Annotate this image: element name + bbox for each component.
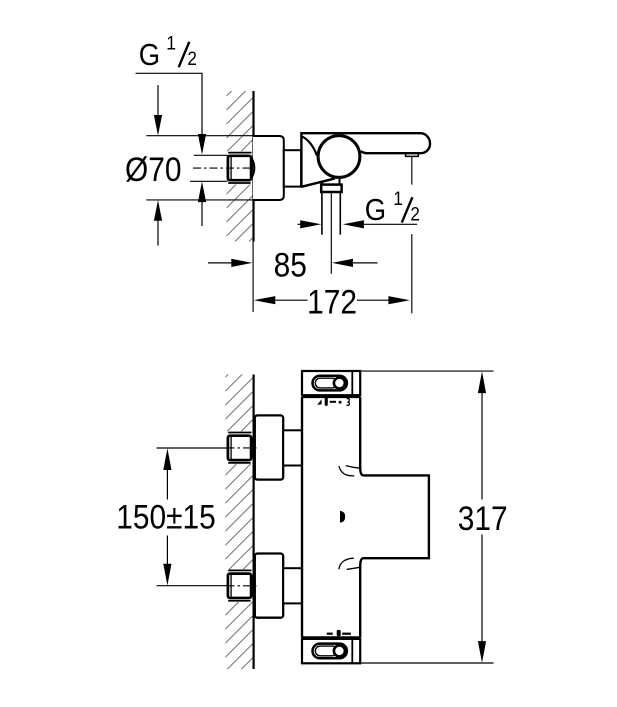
bottom cap pill button outer	[313, 644, 347, 659]
nut lower arrow pointing up	[198, 182, 206, 203]
dimension Ø70 upper arrow	[157, 85, 159, 115]
dimension G 1/2 across pipe: right arrow	[343, 220, 364, 228]
escutcheon top extension line	[146, 135, 253, 137]
connector piece between escutcheon and body	[284, 150, 301, 186]
union nut (top view)	[228, 156, 251, 180]
dimension 172: right arrow	[357, 299, 389, 301]
aerator nub under spout	[406, 153, 419, 156]
bottom cap	[302, 639, 360, 663]
mixer body outline (front view)	[301, 397, 303, 638]
body right edge upper	[360, 397, 429, 638]
temperature marker half-dot on body	[340, 511, 345, 523]
bottom cap circle button	[334, 645, 345, 656]
nut inner chamfer line	[230, 157, 232, 180]
white mask behind union nut (top view)	[225, 151, 254, 184]
top cap divider line	[351, 371, 353, 395]
lower nut flange lines	[228, 569, 251, 571]
body neck transition curve	[302, 137, 317, 156]
handle fillet curves upper joint	[346, 466, 361, 469]
upper nut right chamfer arc	[251, 438, 254, 459]
dimension 317: top extension line	[360, 370, 493, 372]
white mask behind upper inlet nut	[224, 431, 254, 464]
upper nut flange lines	[228, 432, 251, 434]
dimension Ø70 lower arrow	[154, 200, 162, 221]
dimension 150±15 upper arrow pointing up	[163, 448, 171, 470]
top cap pill inner outline	[315, 378, 337, 388]
dimension 85: right arrow	[332, 259, 353, 267]
upper inlet escutcheon block	[255, 415, 283, 479]
leader line from G 1/2 label to nut	[136, 73, 203, 135]
escutcheon bottom extension line	[146, 199, 253, 201]
lower inlet nut	[228, 574, 251, 598]
dimension 317 upper arrow pointing up	[478, 371, 486, 393]
body bottom slanted edge	[301, 178, 335, 186]
lower nut right chamfer arc	[251, 575, 254, 596]
handle fillet curves lower joint	[347, 567, 361, 569]
dimension 172: left arrow	[254, 296, 275, 304]
escutcheon (side view rounded flange)	[253, 136, 284, 200]
svg-text:150±15: 150±15	[116, 498, 216, 536]
mixer body and spout outline (side view)	[301, 133, 430, 187]
wall edge extension line down to 172 dimension	[252, 242, 254, 312]
wall surface edge line (front view)	[253, 375, 255, 670]
top cap circle button	[334, 378, 345, 389]
white mask behind lower inlet nut	[224, 569, 254, 602]
shower outlet pipe	[321, 192, 323, 235]
dimension 150±15: upper extension line	[157, 447, 227, 449]
svg-text:G: G	[365, 194, 386, 228]
lower inlet escutcheon block	[255, 554, 283, 618]
flow icon above bottom cap	[327, 633, 333, 635]
pipe centerline extension down to 85 dimension	[330, 192, 332, 274]
lower nut dash-dot centerline	[227, 585, 257, 587]
svg-text:2: 2	[410, 204, 420, 225]
leader arrow down to nut top	[198, 134, 206, 155]
svg-text:2: 2	[187, 48, 197, 69]
svg-text:Ø70: Ø70	[125, 150, 182, 188]
wall hatching (front view)	[225, 375, 253, 670]
nut top extension line	[194, 154, 228, 156]
control knob circle (side view)	[318, 136, 360, 178]
shower outlet stub edges	[339, 179, 341, 185]
svg-text:1: 1	[166, 32, 176, 54]
bottom cap pill inner outline	[315, 646, 337, 656]
wall surface edge line (top view)	[252, 91, 254, 242]
bottom cap divider line	[351, 639, 353, 663]
svg-text:G: G	[139, 39, 160, 73]
shower outlet union collar	[321, 185, 341, 192]
aerator leader extension line	[411, 156, 413, 184]
lower inlet connector	[283, 568, 302, 603]
svg-text:1: 1	[393, 187, 403, 209]
upper inlet nut	[228, 436, 251, 460]
upper nut inner chamfer line	[230, 437, 232, 460]
nut right chamfer arc	[251, 158, 254, 179]
dimension 150±15 lower arrow pointing down	[166, 536, 168, 565]
body bottom edge	[302, 636, 360, 638]
svg-text:85: 85	[274, 246, 307, 284]
svg-text:172: 172	[307, 283, 357, 321]
wall hatching (top view)	[227, 91, 254, 242]
dimension 317 lower arrow pointing down	[481, 535, 483, 642]
dimension G 1/2 across pipe: left arrow	[298, 223, 306, 225]
lower nut inner chamfer line	[230, 574, 232, 597]
body top edge	[302, 396, 360, 398]
upper inlet connector	[283, 430, 302, 465]
dimension 85: left arrow	[208, 262, 233, 264]
upper nut dash-dot centerline	[227, 447, 257, 449]
top cap pill button outer	[313, 376, 347, 391]
top cap	[302, 371, 360, 395]
nut dash-dot centerline	[193, 167, 253, 169]
union nut flange lines (top view)	[228, 152, 251, 154]
nut bottom extension line	[190, 180, 228, 182]
temperature scale icons under top cap	[317, 399, 321, 404]
dimension 150±15: lower extension line	[157, 585, 227, 587]
svg-text:317: 317	[458, 499, 508, 537]
dimension 317: bottom extension line	[360, 662, 493, 664]
